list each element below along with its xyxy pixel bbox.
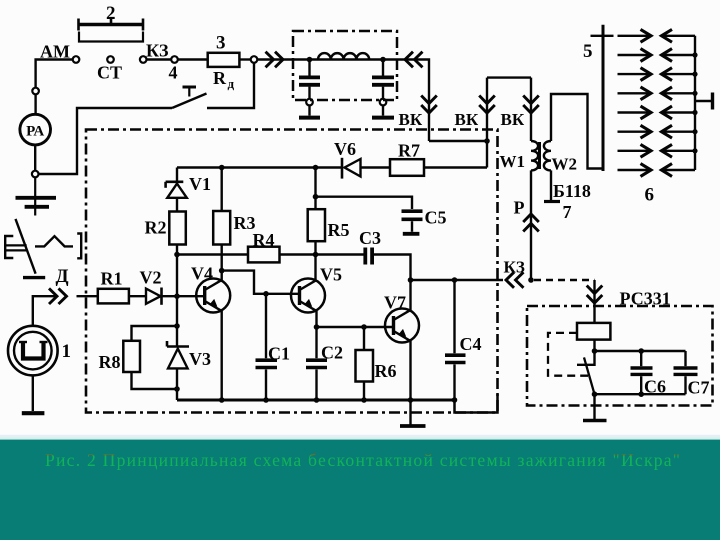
transformer core xyxy=(538,142,541,169)
wire R7 to ВК2 xyxy=(424,166,487,168)
wire ВК3 xyxy=(530,78,532,141)
capacitor C4 xyxy=(445,280,482,400)
wire ВК2 xyxy=(486,78,488,168)
rail exit to box corner xyxy=(455,394,498,413)
resistor R6 xyxy=(356,327,397,400)
node R3 top xyxy=(219,165,225,171)
relay moving contact xyxy=(584,357,595,394)
svg-text:4: 4 xyxy=(169,63,178,83)
diode V6 xyxy=(334,139,361,179)
capacitor C6 xyxy=(631,351,667,397)
distributor output arrow 8 xyxy=(618,164,652,177)
wire through coil box xyxy=(293,58,397,60)
svg-text:д: д xyxy=(228,76,235,91)
node relay bottom xyxy=(592,391,598,397)
wire into relay xyxy=(593,280,595,323)
node V5 emitter xyxy=(314,324,320,330)
wire V5 emitter xyxy=(315,311,317,327)
svg-text:С5: С5 xyxy=(425,208,447,228)
rotor contact tick xyxy=(591,35,614,37)
cam zigzag xyxy=(35,236,73,246)
svg-text:2: 2 xyxy=(106,3,116,24)
capacitor C2 xyxy=(306,327,343,400)
svg-text:R: R xyxy=(213,68,227,88)
caption band transition xyxy=(0,435,720,437)
spark lead arrow 4 xyxy=(662,87,696,100)
node R5 top xyxy=(313,165,319,171)
node C4 top xyxy=(452,277,458,283)
wire V7 emitter xyxy=(409,341,411,400)
bus junction 6 xyxy=(692,148,697,153)
ground rail of unit xyxy=(177,399,455,402)
connector arrow ВК2 xyxy=(479,105,495,113)
node B xyxy=(380,57,386,63)
node R8 bottom xyxy=(174,386,180,392)
bus junction 5 xyxy=(692,129,697,134)
terminal below ammeter xyxy=(32,171,39,178)
wire V4 collector node to V5 base xyxy=(222,271,300,294)
bypass switch Т xyxy=(172,63,254,108)
wire sensor to ground xyxy=(32,375,34,411)
sensor item 1 xyxy=(8,326,71,376)
wire to C5 xyxy=(316,197,413,209)
svg-text:R7: R7 xyxy=(398,141,420,161)
zener V3 xyxy=(167,341,211,369)
svg-text:5: 5 xyxy=(583,41,593,62)
distributor output arrow 5 xyxy=(618,106,652,119)
inductor L xyxy=(318,53,369,59)
spark lead arrow 8 xyxy=(662,164,696,177)
ground battery symbol xyxy=(16,177,57,215)
distributor output arrow 2 xyxy=(618,49,652,62)
bridge ВК2-ВК3 xyxy=(487,76,531,78)
wire C3 to V7 collector node xyxy=(374,255,411,281)
rotor electrode item 5 xyxy=(602,25,605,171)
spark lead arrow 1 xyxy=(662,29,696,42)
svg-text:R4: R4 xyxy=(253,230,275,250)
bus junction 4 xyxy=(692,110,697,115)
capacitor left of filter xyxy=(299,60,320,116)
connector arrow ВК1 xyxy=(421,105,437,113)
capacitor C3 xyxy=(359,228,381,265)
distributor output arrow 7 xyxy=(618,144,652,157)
svg-text:R6: R6 xyxy=(375,361,397,381)
caption band xyxy=(0,440,720,540)
svg-text:7: 7 xyxy=(563,202,572,222)
terminal АМ xyxy=(73,56,80,63)
mechanical link dashed xyxy=(548,333,588,376)
wire R4 to C3 xyxy=(280,253,364,255)
transistor V4 xyxy=(196,279,230,313)
svg-text:КЗ: КЗ xyxy=(146,41,169,61)
wire R5 to V5 collector xyxy=(314,241,316,280)
ground under relay xyxy=(583,394,607,420)
wire R3 to V4 collector xyxy=(220,245,222,281)
spark lead arrow 6 xyxy=(662,125,696,138)
distributor output arrow 1 xyxy=(618,29,652,42)
node relay top xyxy=(592,348,598,354)
svg-text:V1: V1 xyxy=(189,174,211,194)
connector arrows КЗ xyxy=(506,272,514,288)
winding W1 xyxy=(531,141,538,170)
node V2/V4 xyxy=(174,293,180,299)
wire КЗ output xyxy=(411,279,504,281)
connector arrow into relay xyxy=(587,295,603,303)
svg-text:R5: R5 xyxy=(328,220,350,240)
wire relay bottom rail xyxy=(595,393,686,395)
bus junction 3 xyxy=(692,91,697,96)
node C1 top xyxy=(263,291,269,297)
wire V3 to bottom rail xyxy=(176,368,178,400)
terminal СТ xyxy=(107,56,114,63)
ignition switch item 2 xyxy=(79,18,144,42)
bus junction 1 xyxy=(692,52,697,57)
breaker fixed bracket left xyxy=(5,236,13,258)
ammeter РА xyxy=(20,114,51,145)
svg-text:R8: R8 xyxy=(99,352,121,372)
connector arrow ВК3 xyxy=(523,105,539,113)
svg-text:W2: W2 xyxy=(552,155,578,174)
svg-text:Р: Р xyxy=(514,198,525,218)
svg-text:W1: W1 xyxy=(500,152,526,171)
svg-text:ВК: ВК xyxy=(455,110,479,129)
node terminal circle xyxy=(251,56,258,63)
svg-text:R2: R2 xyxy=(145,218,167,238)
terminal 4 xyxy=(171,56,178,63)
spark lead arrow 7 xyxy=(662,144,696,157)
winding W2 xyxy=(544,141,551,170)
wire terminal to ammeter xyxy=(34,94,36,114)
connector arrows out of coil box xyxy=(405,52,413,68)
node A xyxy=(307,57,313,63)
breaker contact plates xyxy=(6,244,27,246)
distributor output arrow 6 xyxy=(618,125,652,138)
svg-text:ВК: ВК xyxy=(399,110,423,129)
wire ammeter to lower terminal xyxy=(34,145,36,171)
svg-text:6: 6 xyxy=(645,185,655,206)
svg-text:С1: С1 xyxy=(268,344,290,364)
resistor R7 xyxy=(390,141,424,176)
capacitor C5 xyxy=(402,208,447,232)
wire vertical bias chain xyxy=(176,255,178,346)
wire V4 emitter to rail xyxy=(220,311,222,400)
svg-text:С7: С7 xyxy=(688,378,710,398)
distributor output arrow 4 xyxy=(618,87,652,100)
node V5 collector rail xyxy=(313,252,319,258)
wire ВК1 to junction xyxy=(429,140,487,142)
wire V7 collector xyxy=(409,280,411,310)
node R8 top xyxy=(174,323,180,329)
wire sensor to connector xyxy=(33,296,56,326)
dashed wire to relay xyxy=(534,279,595,281)
wire V1 to R2 xyxy=(176,198,178,212)
capacitor C7 xyxy=(674,351,710,398)
node R2 bottom xyxy=(174,252,180,258)
cam bracket right xyxy=(77,234,81,259)
wire R1 to V2 xyxy=(129,295,146,297)
svg-text:3: 3 xyxy=(216,33,226,54)
wire V6 to R7 xyxy=(361,166,390,168)
node V7 collector xyxy=(408,277,414,283)
wire V2 to V4 base xyxy=(162,295,206,297)
svg-text:1: 1 xyxy=(62,341,72,362)
electronic unit boundary box xyxy=(86,130,498,413)
capacitor right of filter xyxy=(372,60,394,116)
terminal КЗ xyxy=(140,56,147,63)
capacitor C1 xyxy=(256,294,291,400)
ground under right capacitor xyxy=(372,116,394,120)
resistor R3 xyxy=(213,168,255,245)
svg-text:КЗ: КЗ xyxy=(504,258,525,277)
ground below unit xyxy=(400,400,426,426)
svg-text:V2: V2 xyxy=(140,268,162,288)
svg-text:СТ: СТ xyxy=(97,63,122,83)
svg-text:С4: С4 xyxy=(460,334,482,354)
svg-text:V6: V6 xyxy=(334,139,356,159)
relay box РС331 xyxy=(527,306,713,406)
wire W2 bottom terminal 7 xyxy=(550,170,552,201)
diode V2 xyxy=(140,268,162,305)
spark bus item 6 xyxy=(694,36,696,170)
node C6 top xyxy=(638,348,644,354)
breaker arm xyxy=(16,219,36,274)
ground under left capacitor xyxy=(299,116,320,120)
wire ВК1 xyxy=(397,60,429,142)
connector arrows Д xyxy=(59,288,67,304)
wire АМ to ammeter xyxy=(36,60,73,88)
connector arrows to coil xyxy=(275,52,283,68)
svg-text:Б118: Б118 xyxy=(553,181,591,201)
svg-text:V3: V3 xyxy=(189,349,211,369)
bus junction 2 xyxy=(692,72,697,77)
transistor V7 xyxy=(385,309,419,343)
spark lead arrow 5 xyxy=(662,106,696,119)
relay fixed contact xyxy=(577,351,595,365)
node R6 top xyxy=(361,324,367,330)
spark lead arrow 3 xyxy=(662,68,696,81)
wire coil to contact node xyxy=(593,340,595,351)
relay coil xyxy=(577,323,610,340)
zener V1 xyxy=(166,168,211,198)
ground under C5 xyxy=(403,232,420,236)
svg-text:V7: V7 xyxy=(384,293,406,313)
svg-text:V5: V5 xyxy=(320,265,342,285)
resistor R4 xyxy=(248,230,280,262)
supply rail xyxy=(177,166,341,168)
resistor R2 xyxy=(145,212,186,245)
svg-text:С3: С3 xyxy=(359,228,381,248)
wire W1 bottom to КЗ node xyxy=(530,170,532,280)
junction ВК xyxy=(484,138,490,144)
wire W2 top to rotor xyxy=(551,94,603,169)
connector arrow Р xyxy=(523,214,539,222)
svg-text:РС331: РС331 xyxy=(620,289,671,309)
svg-text:ВК: ВК xyxy=(501,110,525,129)
wire 4 to Rд xyxy=(178,58,208,60)
resistor R8 xyxy=(99,341,141,372)
transistor V5 xyxy=(291,279,325,313)
svg-text:R1: R1 xyxy=(101,269,123,289)
resistor R5 xyxy=(308,168,350,242)
terminal above ammeter xyxy=(32,88,39,95)
spark plug xyxy=(695,93,713,110)
node C6 bottom xyxy=(638,391,644,397)
coil filter box xyxy=(293,31,397,100)
wire to R8 xyxy=(132,326,178,341)
wire relay top rail xyxy=(595,350,686,352)
wire emitter node to V7 base xyxy=(317,326,394,328)
node V4 collector xyxy=(219,268,225,274)
svg-text:РА: РА xyxy=(26,124,44,140)
svg-text:V4: V4 xyxy=(191,264,213,284)
wire R8 bottom xyxy=(132,372,178,389)
breaker lower contact xyxy=(23,276,45,279)
svg-text:Д: Д xyxy=(56,266,69,287)
spark lead arrow 2 xyxy=(662,49,696,62)
svg-text:С2: С2 xyxy=(321,343,343,363)
resistor Rд (item 3) xyxy=(208,33,240,92)
wire switch to ammeter bottom xyxy=(39,108,173,174)
wire connector to R1 xyxy=(77,295,98,297)
node C5 branch xyxy=(313,194,319,200)
wire R2 to R4 xyxy=(177,253,248,255)
wire Rд to node xyxy=(239,58,250,60)
resistor R1 xyxy=(98,269,129,304)
wire node to coil box xyxy=(257,58,293,60)
node КЗ xyxy=(528,277,534,283)
distributor output arrow 3 xyxy=(618,68,652,81)
svg-text:Рис. 2 Принципиальная схема б: Рис. 2 Принципиальная схема бесконтактно… xyxy=(45,450,680,470)
wire КЗ to 4 xyxy=(147,58,172,60)
wire R2 down xyxy=(176,245,178,255)
ground under sensor xyxy=(22,411,45,415)
